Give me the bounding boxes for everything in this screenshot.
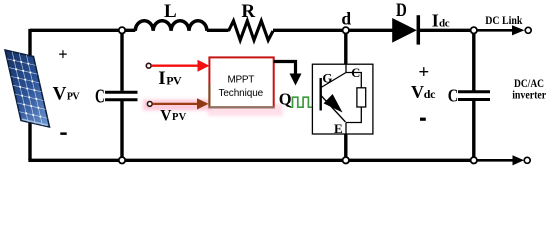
svg-text:C: C (95, 86, 105, 108)
svg-text:R: R (241, 1, 255, 22)
svg-text:I: I (158, 68, 165, 89)
svg-text:PV: PV (67, 92, 81, 103)
svg-text:L: L (164, 1, 177, 22)
svg-text:dc: dc (439, 18, 450, 30)
svg-text:+: + (418, 62, 429, 83)
svg-text:V: V (411, 82, 424, 102)
svg-text:+: + (58, 45, 67, 64)
svg-text:DC Link: DC Link (485, 13, 522, 27)
svg-text:E: E (334, 121, 343, 136)
svg-text:inverter: inverter (512, 88, 547, 102)
svg-text:Q: Q (279, 89, 292, 108)
svg-text:C: C (448, 85, 459, 105)
svg-text:PV: PV (166, 73, 182, 87)
svg-text:MPPT: MPPT (228, 74, 255, 85)
svg-text:d: d (341, 9, 351, 29)
svg-text:PV: PV (172, 112, 187, 123)
svg-text:V: V (160, 107, 172, 124)
svg-text:C: C (351, 66, 360, 80)
svg-text:I: I (432, 11, 439, 31)
svg-text:G: G (322, 71, 332, 86)
svg-text:dc: dc (424, 87, 436, 101)
svg-text:D: D (396, 1, 407, 21)
svg-text:Technique: Technique (218, 88, 263, 99)
svg-text:V: V (53, 84, 67, 105)
